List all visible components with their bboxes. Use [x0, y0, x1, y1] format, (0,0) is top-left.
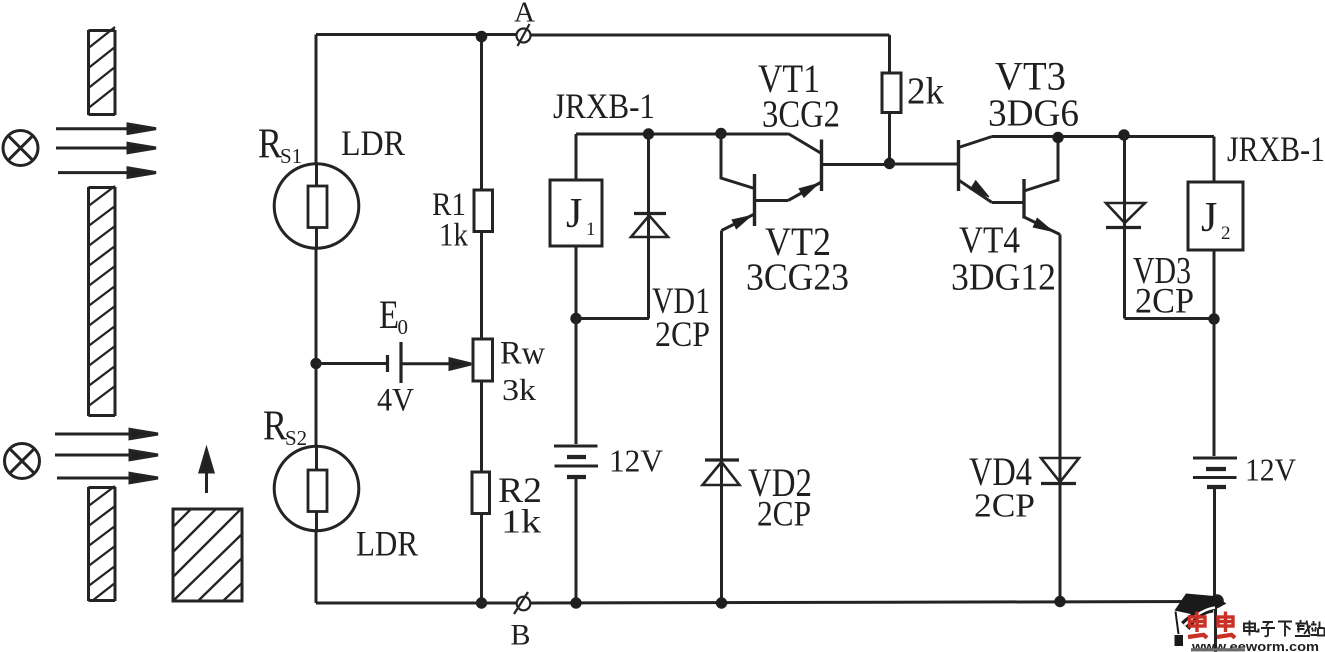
- svg-text:2CP: 2CP: [974, 488, 1035, 525]
- svg-text:12V: 12V: [609, 443, 663, 479]
- node B terminal circle: [514, 592, 530, 614]
- diode VD2 2CP (cathode up): [703, 460, 740, 603]
- node: R2 bottom junction: [476, 597, 487, 608]
- node: J1/VD1 bottom junction: [570, 313, 581, 324]
- svg-text:B: B: [511, 619, 531, 652]
- diode VD1 2CP (flyback, cathode up): [631, 134, 668, 319]
- moving object (hatched block): [173, 509, 242, 601]
- svg-text:2: 2: [1221, 223, 1231, 244]
- battery 12V (left): [554, 446, 598, 477]
- left branch vertical wire (RS1/RS2): [315, 35, 318, 604]
- 2k resistor branch: [888, 35, 891, 164]
- potentiometer Rw 3k: [473, 339, 493, 381]
- svg-text:A: A: [514, 0, 535, 29]
- svg-text:JRXB-1: JRXB-1: [1227, 129, 1325, 169]
- object motion up-arrow: [200, 450, 213, 493]
- svg-text:0: 0: [398, 315, 409, 339]
- logo cap white band: [1185, 608, 1216, 626]
- wire: VT3 base lead: [890, 163, 959, 166]
- node: VD4 at bottom bus: [1054, 596, 1065, 607]
- relay J1 branch: top lead: [575, 134, 578, 180]
- svg-text:3CG23: 3CG23: [746, 257, 849, 299]
- svg-text:LDR: LDR: [341, 123, 405, 163]
- svg-text:E: E: [379, 292, 399, 337]
- relay J1 bottom lead: [575, 246, 578, 319]
- svg-text:1k: 1k: [501, 504, 541, 541]
- svg-text:3DG6: 3DG6: [988, 93, 1079, 135]
- photoresistor RS2 (LDR): [274, 446, 359, 531]
- svg-text:4V: 4V: [377, 383, 414, 419]
- lamp 1 (light source circle-X): [3, 131, 38, 166]
- battery 12V (right): [1193, 458, 1237, 487]
- node: VD1 top junction: [643, 128, 654, 139]
- right 12V battery leads: [1213, 319, 1217, 601]
- light ray arrows 1: [56, 124, 156, 177]
- transistor VT1 3CG2 (PNP): [755, 134, 890, 201]
- transistor VT4 3DG12 (NPN): [1024, 138, 1060, 235]
- wiper arrow wire to Rw: [402, 359, 471, 369]
- relay J2 bottom lead: [1213, 250, 1216, 319]
- logo char chong 1 (red): [1188, 612, 1207, 638]
- svg-text:2k: 2k: [907, 71, 944, 113]
- svg-text:R: R: [258, 122, 282, 168]
- photoresistor RS1 (LDR): [274, 164, 359, 249]
- relay J1 coil box: [550, 180, 602, 246]
- wall middle segment (hatched baffle): [89, 186, 116, 416]
- VT2 emitter vertical wire: [720, 231, 723, 486]
- svg-text:J: J: [1201, 195, 1217, 241]
- light ray arrows 2: [55, 429, 158, 482]
- bottom bus wire: [316, 602, 1217, 604]
- transistor VT2 3CG23 (PNP): [721, 134, 755, 231]
- wall upper segment (hatched baffle): [89, 27, 116, 115]
- svg-text:2CP: 2CP: [757, 494, 811, 534]
- top bus wire: [316, 33, 890, 37]
- svg-text:3DG12: 3DG12: [951, 257, 1056, 299]
- wire battery left: [316, 362, 386, 365]
- lamp 2 (light source circle-X): [5, 444, 40, 479]
- battery E0 (4V cell): [388, 342, 402, 383]
- svg-text:3k: 3k: [502, 372, 537, 407]
- logo graduation cap crown: [1181, 606, 1214, 630]
- node: right battery at bottom bus: [1210, 594, 1224, 608]
- svg-text:J: J: [566, 191, 582, 237]
- svg-text:LDR: LDR: [356, 524, 418, 564]
- wire stub below bus into logo: [1214, 601, 1217, 652]
- left 12V battery leads: [575, 319, 578, 604]
- logo text dianzi xiazaizhan (black): [1244, 620, 1325, 637]
- node: 2k bottom / VT1 base junction: [884, 158, 895, 169]
- svg-text:2CP: 2CP: [1135, 281, 1194, 321]
- node: VT3/VT4 collector junction: [1052, 132, 1063, 143]
- svg-text:S2: S2: [285, 426, 307, 450]
- svg-text:Rw: Rw: [500, 336, 545, 372]
- logo url underline smear: [1191, 648, 1245, 651]
- logo graduation cap board: [1175, 594, 1227, 617]
- svg-text:12V: 12V: [1245, 452, 1296, 488]
- svg-text:2CP: 2CP: [655, 314, 710, 354]
- svg-text:1: 1: [586, 219, 596, 240]
- svg-text:JRXB-1: JRXB-1: [553, 86, 655, 126]
- node: VD3/J2 bottom junction: [1208, 313, 1219, 324]
- relay J2 coil box: [1188, 182, 1243, 250]
- wire J1 junction to VD1: [576, 317, 649, 320]
- resistor R2 1k: [472, 472, 490, 514]
- node: VD2 at bottom bus: [716, 597, 727, 608]
- R1 branch vertical wire: [480, 37, 483, 604]
- diode VD4 2CP (cathode down): [1041, 458, 1079, 602]
- svg-text:S1: S1: [280, 144, 302, 168]
- svg-text:VT4: VT4: [959, 220, 1020, 262]
- node: top junction at R1 branch: [476, 31, 488, 43]
- svg-text:R: R: [263, 404, 287, 450]
- relay J2 branch top lead: [1213, 137, 1216, 183]
- node: VT1/VT2 collector junction: [715, 128, 726, 139]
- node: VD3 top junction: [1118, 129, 1129, 140]
- wall lower segment (hatched baffle): [89, 486, 116, 601]
- resistor 2k: [882, 73, 901, 113]
- node: battery tap junction: [310, 358, 321, 369]
- logo char chong 2 (red): [1217, 612, 1235, 638]
- wire: relay node bus y134: [576, 133, 788, 136]
- logo cap tassel: [1176, 612, 1179, 635]
- wire: collector bus y136.5: [992, 135, 1214, 138]
- transistor VT3 3DG6 (NPN): [959, 137, 1025, 203]
- VT4 emitter vertical wire: [1059, 235, 1062, 484]
- svg-text:3CG2: 3CG2: [762, 94, 840, 136]
- node A terminal circle: [517, 24, 531, 46]
- node: J1 branch at bottom bus: [570, 597, 581, 608]
- svg-text:1k: 1k: [439, 218, 468, 254]
- diode VD3 2CP (cathode down): [1106, 135, 1214, 319]
- resistor R1 1k: [474, 190, 493, 232]
